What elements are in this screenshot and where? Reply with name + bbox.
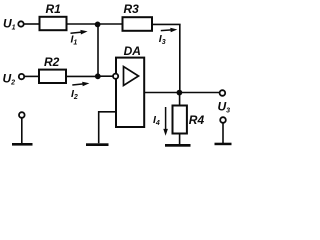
wire R2 to node B xyxy=(66,75,98,77)
wire R4 to ground xyxy=(179,134,181,145)
ground bar under R4 xyxy=(165,144,191,147)
terminal U3 output xyxy=(220,90,226,96)
node B junction dot xyxy=(95,73,101,79)
terminal U2 input xyxy=(19,74,24,79)
current arrow I2 xyxy=(72,82,89,87)
ground bar left xyxy=(12,143,33,146)
terminal common left xyxy=(19,112,25,118)
current arrow I4 xyxy=(163,107,168,136)
op-amp inverting input circle xyxy=(113,74,118,79)
wire non-inverting input xyxy=(99,112,116,144)
svg-text:R1: R1 xyxy=(46,2,62,16)
wire node A to R3 xyxy=(98,23,123,25)
ground bar right xyxy=(215,143,232,146)
label I2 xyxy=(71,88,78,101)
op-amp triangle symbol xyxy=(124,67,139,86)
resistor R4 xyxy=(173,106,187,134)
terminal U1 input xyxy=(18,21,23,26)
wire node B to op-amp input xyxy=(98,75,113,77)
label R4 xyxy=(189,113,205,127)
label I3 xyxy=(159,33,166,46)
wire U1 to R1 xyxy=(24,23,40,25)
label U2 xyxy=(3,72,16,87)
current arrow I1 xyxy=(71,30,88,35)
current arrow I3 xyxy=(161,28,178,33)
svg-text:R2: R2 xyxy=(44,55,60,69)
wire feedback vertical xyxy=(179,24,181,92)
wire common left to ground xyxy=(21,118,23,143)
node C junction dot xyxy=(177,90,183,96)
label R1 xyxy=(46,2,62,16)
op-amp U1 body xyxy=(116,58,144,127)
label DA xyxy=(124,44,141,58)
svg-text:DA: DA xyxy=(124,44,141,58)
node A junction dot xyxy=(95,22,101,28)
label R3 xyxy=(124,2,140,16)
terminal U3 common xyxy=(220,117,226,123)
resistor R1 xyxy=(40,17,67,30)
label R2 xyxy=(44,55,60,69)
wire U2 to R2 xyxy=(24,75,39,77)
wire U3 common to ground xyxy=(222,123,224,143)
resistor R3 xyxy=(123,17,153,31)
wire R1 to node A xyxy=(67,23,98,25)
svg-text:R4: R4 xyxy=(189,113,205,127)
label U1 xyxy=(3,17,16,32)
label U3 xyxy=(218,100,231,115)
label I1 xyxy=(71,34,78,47)
wire R3 to corner xyxy=(152,23,181,25)
wire node C to R4 xyxy=(179,93,181,106)
wire node A down to node B xyxy=(97,24,99,76)
resistor R2 xyxy=(39,70,66,83)
label I4 xyxy=(153,114,160,127)
svg-text:R3: R3 xyxy=(124,2,140,16)
ground bar under op-amp xyxy=(86,143,109,146)
wire op-amp output xyxy=(144,92,220,94)
